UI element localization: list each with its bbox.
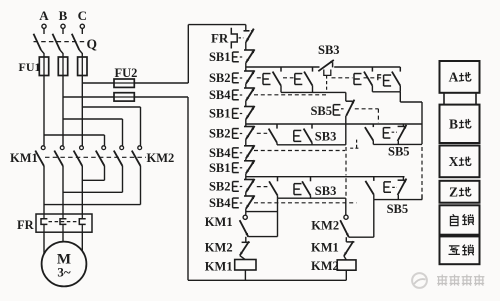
svg-text:SB3: SB3	[318, 43, 340, 57]
svg-text:A: A	[39, 8, 49, 23]
svg-text:SB3: SB3	[315, 184, 337, 198]
svg-text:SB5: SB5	[387, 202, 409, 216]
svg-text:KM2: KM2	[311, 259, 339, 273]
svg-text:SB1: SB1	[209, 50, 231, 64]
svg-text:KM1: KM1	[311, 241, 339, 255]
svg-text:SB4: SB4	[209, 196, 231, 210]
svg-text:KM2: KM2	[311, 218, 339, 232]
svg-text:SB1: SB1	[209, 107, 231, 121]
svg-text:3~: 3~	[57, 265, 71, 280]
svg-text:C: C	[78, 8, 87, 23]
svg-text:SB4: SB4	[209, 88, 231, 102]
svg-text:KM2: KM2	[205, 241, 233, 255]
svg-text:KM1: KM1	[10, 151, 38, 165]
svg-text:KM2: KM2	[147, 151, 175, 165]
svg-text:SB2: SB2	[209, 180, 231, 194]
svg-text:Z: Z	[449, 185, 458, 200]
svg-text:Q: Q	[87, 37, 98, 52]
svg-text:KM1: KM1	[205, 215, 233, 229]
svg-text:B: B	[449, 117, 458, 132]
svg-text:SB5: SB5	[310, 104, 332, 118]
svg-text:SB2: SB2	[209, 71, 231, 85]
svg-text:FR: FR	[17, 218, 35, 232]
svg-text:A: A	[449, 70, 459, 85]
svg-text:SB2: SB2	[209, 127, 231, 141]
svg-text:X: X	[449, 154, 459, 169]
svg-text:SB1: SB1	[209, 161, 231, 175]
svg-text:SB4: SB4	[209, 146, 231, 160]
svg-text:SB3: SB3	[315, 129, 337, 143]
svg-text:B: B	[59, 8, 68, 23]
svg-text:FU1: FU1	[19, 60, 41, 74]
svg-text:SB5: SB5	[388, 145, 410, 159]
svg-text:KM1: KM1	[205, 259, 233, 273]
svg-text:FU2: FU2	[115, 66, 138, 80]
svg-text:FR: FR	[211, 31, 229, 46]
